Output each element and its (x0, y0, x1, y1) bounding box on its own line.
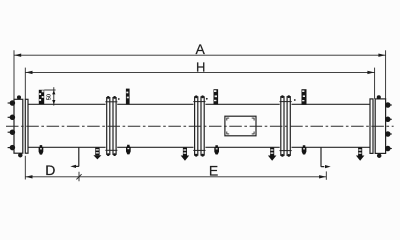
svg-text:H: H (196, 59, 205, 74)
svg-text:A: A (196, 41, 206, 57)
svg-text:D: D (45, 162, 55, 178)
svg-text:E: E (209, 163, 218, 179)
svg-text:50: 50 (47, 94, 53, 100)
